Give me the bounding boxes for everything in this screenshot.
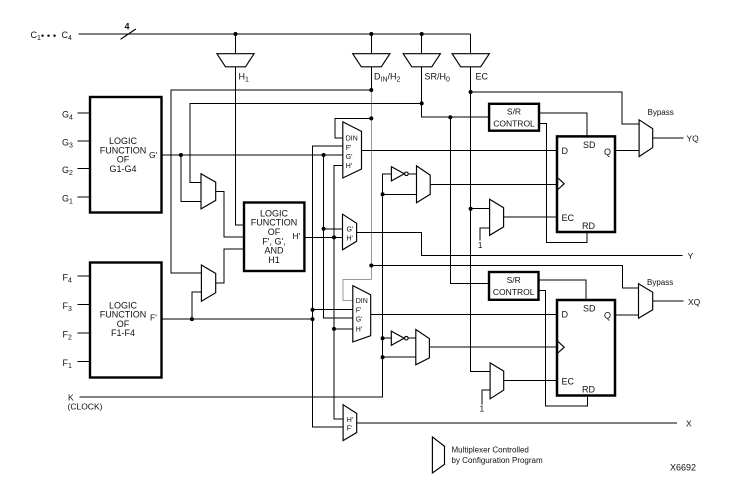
wire bus stub to H1 mux <box>235 34 237 54</box>
mux DIN/H2 <box>353 54 390 67</box>
node H' branch to lower DIN mux <box>332 327 336 331</box>
node bus junction DIN/H2 <box>369 32 373 36</box>
svg-text:EC: EC <box>562 213 575 223</box>
wire DIN/H2 left rail to F-mux top input <box>171 90 371 273</box>
svg-text:Q: Q <box>604 147 611 157</box>
svg-text:EC: EC <box>562 377 575 387</box>
clock triangle upper FF <box>558 178 564 190</box>
svg-text:D: D <box>562 310 569 320</box>
wire G' distribution vertical <box>324 155 353 318</box>
wire upper DIN mux output to FF D <box>362 149 558 151</box>
svg-text:CONTROL: CONTROL <box>493 119 535 129</box>
node EC branch to upper bypass <box>469 90 473 94</box>
inverter lower clock <box>391 331 404 345</box>
svg-text:F': F' <box>356 308 362 315</box>
node EC branch to upper EC mux <box>469 207 473 211</box>
wire upper EC mux output to FF <box>504 216 557 218</box>
logic function box F1-F4 <box>90 263 162 378</box>
svg-text:XQ: XQ <box>688 297 701 307</box>
node F' branch to lower DIN mux <box>311 308 315 312</box>
wire SR to lower S/R control <box>450 117 489 283</box>
node C1...C4 input label <box>31 30 73 42</box>
svg-text:G': G' <box>149 150 158 160</box>
S/R control box upper <box>489 104 539 131</box>
mux DIN/F'/G'/H' lower <box>353 286 371 342</box>
svg-text:by Configuration Program: by Configuration Program <box>452 456 543 465</box>
svg-text:Multiplexer Controlled: Multiplexer Controlled <box>452 446 529 455</box>
wire lower RD from S/R control <box>539 291 588 407</box>
wire H' branch into lower DIN mux <box>334 328 353 330</box>
wire SR/H0 output to upper S/R control <box>422 67 489 117</box>
wire lower DIN mux output to FF D <box>371 313 557 315</box>
wire EC vertical to lower EC mux <box>471 67 491 372</box>
svg-text:D: D <box>562 146 569 156</box>
svg-text:G': G' <box>346 154 353 161</box>
wire upper SD from S/R control <box>539 113 587 137</box>
legend text <box>452 446 543 465</box>
wire K branch to lower clock mux <box>383 356 416 358</box>
svg-text:Bypass: Bypass <box>648 108 674 117</box>
S/R control box lower <box>489 272 539 300</box>
wire XQ output <box>653 300 684 302</box>
svg-text:1: 1 <box>478 240 483 250</box>
svg-text:F1-F4: F1-F4 <box>111 328 135 338</box>
wire G1 stub <box>77 196 90 198</box>
wire DIN notch into lower DIN mux (grey) <box>343 279 371 300</box>
svg-text:Q: Q <box>604 311 611 321</box>
wire F3 stub <box>77 304 90 306</box>
node F' join distribution vertical <box>311 317 315 321</box>
wire DIN/H2 vertical (grey) <box>370 92 372 279</box>
wire constant 1 stub upper <box>480 228 489 241</box>
mux EC upper <box>490 199 504 235</box>
wire SR left rail to G-mux top input <box>190 103 422 182</box>
wire bus stub to SR/H0 mux <box>421 34 423 54</box>
svg-text:CONTROL: CONTROL <box>493 287 535 297</box>
svg-text:YQ: YQ <box>687 134 700 144</box>
node K branch lower inverter <box>381 336 385 340</box>
wire G4 stub <box>77 112 90 114</box>
svg-text:G': G' <box>356 316 363 323</box>
wire lower SD from S/R control <box>539 280 587 300</box>
node K branch lower clock mux <box>381 355 385 359</box>
wire H' distribution vertical <box>334 166 343 419</box>
wire DIN/H2 output upper segment <box>370 67 372 92</box>
wire upper inverter output <box>408 173 416 175</box>
node DIN/H2 branch left rail <box>369 88 373 92</box>
mux EC top <box>452 54 489 67</box>
wire lower Q to bypass mux <box>615 314 639 316</box>
svg-text:Y: Y <box>688 251 694 261</box>
wire Y output <box>357 232 683 255</box>
node DIN/H2 branch to lower bypass <box>369 264 373 268</box>
svg-text:F': F' <box>346 145 352 152</box>
svg-text:EC: EC <box>476 72 489 82</box>
wire K branch to lower inverter <box>383 337 392 339</box>
wire constant 1 stub lower <box>482 390 490 404</box>
wire C bus horizontal <box>79 33 471 35</box>
inverter upper clock <box>391 167 404 181</box>
node bus junction H1 <box>234 32 238 36</box>
flip-flop lower <box>557 300 615 396</box>
svg-text:X: X <box>686 419 692 429</box>
logic function box G1-G4 <box>90 97 162 213</box>
wire bus stub to EC mux <box>470 34 472 54</box>
svg-text:F': F' <box>150 313 157 323</box>
node bus junction SR/H0 <box>420 32 424 36</box>
wire DIN notch into upper DIN mux <box>335 118 372 137</box>
wire upper Q to bypass mux <box>615 150 639 152</box>
svg-text:H1: H1 <box>268 255 280 265</box>
wire lower EC mux output to FF <box>504 380 557 382</box>
node G' junction distribution <box>322 153 326 157</box>
mux G'/H' to Y <box>343 214 357 250</box>
wire F2 stub <box>77 332 90 334</box>
node G' branch to Y mux <box>322 227 326 231</box>
mux bypass upper <box>639 120 653 157</box>
mux SR/H0 <box>403 54 440 67</box>
svg-text:H': H' <box>356 327 362 334</box>
svg-text:H': H' <box>347 417 353 424</box>
svg-text:SD: SD <box>583 140 596 150</box>
node DIN junction upper <box>369 116 373 120</box>
wire K clock line and riser <box>80 174 392 397</box>
svg-text:H': H' <box>293 231 301 241</box>
svg-text:DIN: DIN <box>346 135 358 142</box>
mux H1 <box>217 54 254 67</box>
svg-text:DIN: DIN <box>356 298 368 305</box>
wire upper RD from S/R control <box>539 124 587 243</box>
wire lower inverter output <box>408 337 416 339</box>
wire G' branch into G'/H' mux <box>324 228 343 230</box>
legend mux symbol <box>432 437 444 473</box>
wire F' branch into F-mux bottom input <box>192 292 202 319</box>
wire bus stub to DIN/H2 mux <box>370 34 372 54</box>
svg-text:RD: RD <box>582 385 595 395</box>
wire EC branch into upper EC mux <box>471 208 490 210</box>
wire H1 mux output down to H function box <box>236 67 245 225</box>
node G' branch to G-mux <box>179 153 183 157</box>
node K branch upper clock mux <box>381 192 385 196</box>
node H' junction distribution <box>332 235 336 239</box>
wire DIN/H2 branch to lower bypass mux <box>371 266 638 288</box>
svg-text:1: 1 <box>480 404 485 414</box>
bus width slash <box>121 29 136 39</box>
svg-text:H': H' <box>347 235 353 242</box>
svg-text:S/R: S/R <box>507 107 521 117</box>
svg-text:S/R: S/R <box>507 275 521 285</box>
svg-text:G': G' <box>347 226 354 233</box>
wire G' branch into G-mux bottom input <box>181 155 201 202</box>
mux H'/F' to X <box>343 405 357 441</box>
svg-text:SD: SD <box>583 304 596 314</box>
wire X output <box>357 422 677 424</box>
wire F' distribution vertical <box>313 146 344 427</box>
svg-text:F': F' <box>347 426 353 433</box>
wire YQ output <box>653 137 684 139</box>
logic function box F' G' H1 <box>244 203 304 272</box>
svg-text:RD: RD <box>582 221 595 231</box>
wire G' output to upper DIN mux <box>162 154 343 156</box>
svg-text:Bypass: Bypass <box>647 278 673 287</box>
wire G2 stub <box>77 168 90 170</box>
flip-flop upper <box>557 136 615 232</box>
mux lower clock polarity <box>416 330 430 365</box>
wire H' output from H box <box>304 236 342 238</box>
wire lower clock to FF <box>429 346 557 348</box>
wire F-mux output to H box <box>216 249 244 283</box>
svg-text:H': H' <box>346 163 352 170</box>
wire upper clock to FF <box>430 183 557 185</box>
node SR branch left rail <box>420 101 424 105</box>
wire F' output to F' distribution vertical <box>162 318 313 320</box>
svg-text:(CLOCK): (CLOCK) <box>68 402 103 412</box>
mux EC lower <box>490 363 504 399</box>
mux upper clock polarity <box>417 166 431 203</box>
svg-text:G1-G4: G1-G4 <box>109 164 136 174</box>
wire EC branch to upper bypass mux <box>471 92 639 124</box>
wire G-mux output to H box <box>216 191 244 237</box>
mux bypass lower <box>639 284 653 319</box>
node F' branch to F-mux <box>190 317 194 321</box>
mux DIN/F'/G'/H' upper <box>343 122 362 178</box>
wire G3 stub <box>77 140 90 142</box>
clock triangle lower FF <box>558 341 564 353</box>
wire F1 stub <box>77 361 90 363</box>
mux G select (near G box) <box>201 174 216 209</box>
svg-text:4: 4 <box>125 22 130 32</box>
svg-text:X6692: X6692 <box>670 463 696 473</box>
wire F' branch into lower DIN mux <box>313 309 353 311</box>
mux F select (near F box) <box>201 265 215 301</box>
node SR branch down to lower S/R control <box>448 115 452 119</box>
wire K branch to upper clock mux <box>383 193 417 195</box>
wire F4 stub <box>77 275 90 277</box>
